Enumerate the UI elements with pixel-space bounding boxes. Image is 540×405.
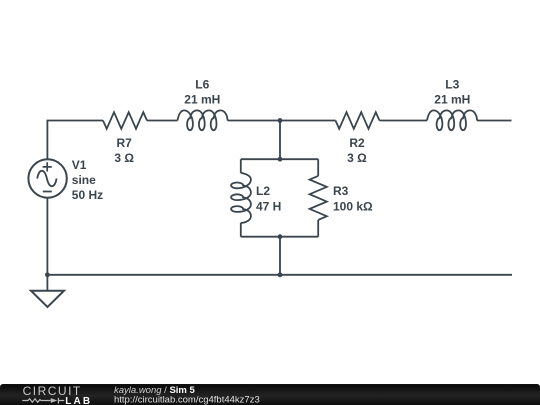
svg-text:LAB: LAB (65, 396, 92, 405)
svg-text:http://circuitlab.com/cg4fbt44: http://circuitlab.com/cg4fbt44kz7z3 (114, 394, 260, 405)
